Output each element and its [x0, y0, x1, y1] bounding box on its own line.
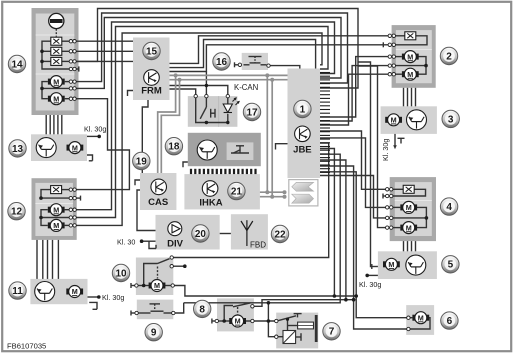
svg-text:3: 3 — [448, 114, 454, 125]
numbered circle 13 — [9, 140, 26, 157]
wire block9 left terminator — [130, 311, 132, 316]
block 2 inner panel — [396, 30, 432, 83]
svg-text:DIV: DIV — [167, 239, 184, 250]
numbered circle 1 — [294, 100, 311, 117]
numbered circle 2 — [440, 47, 457, 64]
wire JBE-b3 long rail to block9 — [184, 154, 341, 303]
svg-text:Kl. 30: Kl. 30 — [117, 238, 135, 247]
block 3 box — [381, 106, 437, 134]
wire block10 M rail — [174, 286, 356, 297]
numbered circle 16 — [213, 53, 230, 70]
connector pins block2 — [388, 34, 395, 76]
svg-text:IHKA: IHKA — [199, 198, 222, 209]
svg-text:21: 21 — [231, 187, 243, 198]
svg-text:11: 11 — [12, 286, 23, 297]
wire JBE-d1 to block4 M1 — [320, 138, 386, 208]
numbered circle 22 — [271, 225, 288, 242]
svg-text:Kl. 30g: Kl. 30g — [84, 125, 106, 134]
block7 relay coil — [278, 336, 283, 338]
block 9 box — [137, 300, 174, 320]
motor block11 — [66, 286, 83, 298]
wire FRM bottom to CAS top — [142, 100, 148, 173]
K-CAN drop to CAS 2 — [161, 80, 179, 173]
transistor unit block11 — [35, 282, 55, 302]
wire DIV left bracket — [149, 241, 156, 248]
CAS control-unit symbol — [151, 179, 167, 195]
block 14 outer housing — [32, 8, 79, 115]
block14 lamp-switch symbol — [49, 13, 64, 28]
svg-text:22: 22 — [274, 229, 286, 240]
wire Kl30 feed to DIV — [143, 240, 156, 242]
lamp X block12 — [51, 186, 62, 194]
IHKA IC comb — [191, 169, 256, 174]
block8 M stubs — [219, 320, 232, 322]
wire JBE-b4 join rail — [320, 160, 346, 300]
FBD antenna symbol — [241, 220, 253, 246]
motor M2 block2 — [402, 68, 419, 80]
K-CAN bus line 1 — [170, 74, 288, 76]
motor block6 — [412, 312, 429, 324]
wire block2 M2 elbow to JBE — [320, 74, 388, 125]
wire block13 bottom bracket — [87, 155, 93, 161]
svg-text:Kl. 30g: Kl. 30g — [102, 293, 124, 302]
bottom: block 10 box — [136, 258, 173, 296]
numbered circle 18 — [165, 138, 182, 155]
numbered circle 4 — [440, 198, 457, 215]
wire DIV to FBD — [220, 233, 231, 235]
wire block14 row2 to FRM — [76, 50, 133, 52]
motor block5 — [383, 258, 400, 270]
block4 internal X loop — [393, 188, 403, 190]
block10 M left stub — [137, 285, 151, 287]
wire block9 riser to rail — [175, 303, 184, 313]
wires block12 bottom to block11 — [36, 240, 38, 279]
wire FRM-A to block2 row1 — [170, 36, 389, 64]
svg-text:Kl. 30g: Kl. 30g — [359, 280, 381, 289]
wire block3 Kl30g arrow — [394, 134, 396, 146]
svg-text:8: 8 — [199, 304, 205, 315]
block 13 box — [31, 134, 87, 161]
svg-text:6: 6 — [447, 316, 453, 327]
transistor unit block5 — [406, 255, 426, 275]
K-CAN drop to IHKA/chevron 2 — [271, 80, 273, 197]
block10 dashed coupling — [157, 267, 159, 279]
wire rail drop to block7 pin2 — [268, 303, 274, 337]
wire block11 bottom bracket — [89, 302, 97, 309]
block 8 box — [217, 298, 254, 331]
wire JBE-d2 to block4 mid — [320, 176, 386, 218]
JBE block 1 — [288, 69, 321, 179]
block4 internal motor row stubs — [393, 206, 400, 208]
block 18 dark module box — [188, 133, 261, 166]
numbered circle 6 — [441, 312, 458, 329]
block10 M right stub — [163, 285, 171, 287]
wire JBE to block6 pin2 long vertical — [320, 166, 407, 329]
connector pins block6 — [407, 316, 410, 319]
wire CAS left bracket — [135, 180, 140, 185]
K-CAN bus line 2 — [170, 79, 288, 81]
connector pins block10 — [135, 284, 138, 287]
block6 internal loop — [410, 317, 412, 319]
svg-text:19: 19 — [136, 156, 148, 167]
block14 lamp dashed link — [55, 29, 57, 37]
lamp X2 block14 — [51, 47, 62, 55]
wire bus4 block12 M1 to top bus to JBE — [76, 22, 335, 210]
wire block2 M1 elbow to JBE — [320, 57, 388, 117]
svg-text:Kl. 30g: Kl. 30g — [381, 139, 390, 161]
wire bus3 block14 mid to top bus to JBE — [76, 18, 341, 89]
CAS block — [140, 173, 176, 210]
FBD block — [231, 214, 268, 249]
JBE connector comb — [320, 73, 330, 173]
IHKA block — [184, 174, 260, 209]
wire block4 row2 terminator — [382, 194, 384, 199]
motor M1 block12 — [48, 204, 65, 216]
wire CAS left to DIV — [137, 190, 156, 231]
svg-text:4: 4 — [446, 202, 452, 213]
block18 inner switch symbol — [231, 152, 249, 154]
wires block4 bottom to block5 — [403, 241, 405, 251]
block7 internals: switch blade — [278, 316, 296, 321]
motor M2 block14 — [48, 93, 65, 105]
svg-text:CAS: CAS — [148, 197, 168, 208]
DIV play symbol — [168, 222, 182, 236]
wire block2 mid elbow to JBE — [320, 66, 388, 121]
motor M1 block4 — [400, 201, 417, 213]
symbols layer — [35, 13, 429, 338]
wire block8 switch rail — [254, 300, 354, 307]
wire button16 left terminator — [234, 62, 236, 67]
wire bus5 block12 mid to top bus to JBE — [76, 27, 328, 218]
svg-text:12: 12 — [11, 207, 23, 218]
block16 contact — [244, 64, 250, 66]
wire block14 row1 to FRM — [76, 40, 133, 42]
wire JBE left bracket — [276, 144, 288, 150]
wire block18 left bracket — [183, 162, 188, 167]
block10 switch riser — [144, 264, 158, 286]
block4 internal motor common — [415, 207, 427, 227]
numbered circle 21 — [228, 182, 245, 199]
numbered circle 20 — [192, 225, 209, 242]
block8 switch riser — [224, 306, 233, 322]
block14 internal left rail X — [42, 41, 69, 69]
wire block10 switch contact2 stub — [173, 265, 183, 267]
wires layer — [37, 9, 430, 344]
block12 internal X row — [62, 189, 70, 191]
wire block8 left terminator — [211, 319, 213, 324]
svg-text:FB6107035: FB6107035 — [7, 342, 46, 351]
block 17 switch/LED box — [188, 96, 238, 127]
connector pins block17 — [194, 94, 197, 97]
block17 H symbol — [210, 109, 212, 118]
terminator tick block2 row2 — [382, 42, 384, 47]
svg-text:FBD: FBD — [250, 241, 266, 250]
K-CAN drop to CAS 1 — [158, 75, 176, 173]
terminator tick block14 row4 — [78, 66, 80, 71]
numbered circle 7 — [323, 323, 340, 340]
wire FRM to b17 pins 2-3 net — [170, 86, 228, 95]
lamp X block2 — [405, 32, 416, 40]
chevron arrow upper (left pointing) — [292, 182, 314, 191]
numbered circle 12 — [8, 203, 25, 220]
svg-text:2: 2 — [446, 51, 452, 62]
lamp X block4 — [403, 185, 414, 193]
numbered circle 5 — [442, 256, 459, 273]
svg-text:K-CAN: K-CAN — [234, 83, 258, 92]
motor M1 block14 — [48, 76, 65, 88]
svg-text:18: 18 — [168, 142, 180, 153]
wire JBE-b1 to block10 switch — [173, 143, 328, 258]
wire block14 row4 terminator — [76, 68, 79, 70]
wire FRM left bracket — [128, 91, 134, 97]
wire bus to block4 M2 long vertical — [358, 66, 386, 228]
block 11 box — [30, 279, 87, 304]
block 4 outer housing — [390, 177, 436, 241]
wire FRM to b17 pin1 — [170, 89, 196, 94]
block 12 outer housing — [32, 178, 77, 240]
wire bus1 block14 row3 to top bus to JBE — [76, 9, 358, 89]
lamp X3 block14 — [51, 57, 62, 65]
block7 bar — [315, 315, 318, 342]
block 4 inner panel — [395, 182, 432, 236]
chevron continuation box — [289, 180, 318, 206]
block17 internal rail — [196, 98, 228, 123]
block17 LED symbol — [223, 98, 239, 113]
numbered circle 19 — [133, 152, 150, 169]
FRM control-unit symbol — [144, 70, 160, 86]
wire block13 Kl30g stub — [87, 135, 98, 137]
transistor unit block13 — [36, 138, 56, 158]
block 2 outer housing — [392, 25, 436, 88]
block16 plunger — [249, 56, 262, 58]
wire b17 pin2 drop and riser — [205, 72, 207, 95]
motor M2 block4 — [400, 222, 417, 234]
wire FRM-B to JBE top — [170, 40, 316, 69]
block 5 box — [378, 251, 437, 279]
wire bus2 block14 M1 to top bus to JBE — [76, 13, 348, 83]
numbered circle 10 — [112, 264, 129, 281]
svg-text:16: 16 — [216, 57, 228, 68]
svg-text:JBE: JBE — [293, 145, 311, 156]
block17 switch stem — [205, 98, 207, 107]
motor M1 block2 — [402, 51, 419, 63]
wire block5 left terminator — [371, 264, 373, 269]
wire block14 row3b to FRM — [76, 60, 133, 62]
numbered circle 8 — [194, 300, 211, 317]
chevron arrow lower (right pointing) — [292, 194, 314, 203]
wire block10 left terminator — [130, 283, 132, 288]
wire block11 Kl30g stub — [88, 296, 98, 298]
svg-text:9: 9 — [151, 328, 157, 339]
block14 internal: X row stubs to pins — [62, 40, 69, 42]
block17 switch blade — [200, 107, 206, 119]
wire bus to block5 long vertical — [358, 62, 373, 267]
wire JBE-c1 to block4 row1 — [320, 131, 386, 189]
wire block8 out to block7 pin1 — [254, 320, 274, 322]
block3 T terminal — [398, 137, 405, 139]
connector pins block4 — [386, 188, 393, 230]
block 7 box — [276, 313, 318, 349]
svg-text:1: 1 — [300, 104, 306, 115]
numbered circle 15 — [143, 42, 160, 59]
block2 internal motor row stubs — [396, 56, 402, 58]
motor M2 block12 — [48, 219, 65, 231]
motor block8 — [229, 315, 246, 327]
numbered circle 3 — [442, 110, 459, 127]
connector pins block16 — [238, 63, 241, 66]
svg-text:5: 5 — [448, 260, 454, 271]
svg-text:20: 20 — [195, 229, 207, 240]
connector pins block7 — [275, 319, 278, 322]
block8 dashed coupling — [237, 307, 239, 315]
block 12 inner panel — [35, 183, 73, 236]
svg-text:17: 17 — [246, 107, 258, 118]
numbered circle 9 — [145, 324, 162, 341]
numbered circle 14 — [8, 55, 25, 72]
connector pins block14 — [69, 40, 76, 101]
wire block14 M2 down to block12 row1 — [76, 99, 129, 190]
block2 internal X loop — [396, 35, 405, 37]
K-CAN junction dots — [174, 73, 287, 198]
wire JBE to block6 pin1 long vertical — [320, 172, 407, 318]
block 16 button box — [242, 53, 268, 70]
block10 switch blade — [158, 259, 170, 264]
block 6 box — [406, 305, 434, 335]
wire bus6 block12 M2 to top bus to JBE — [76, 33, 322, 225]
numbered circle 11 — [9, 282, 26, 299]
motor block13 — [67, 142, 84, 154]
svg-text:10: 10 — [115, 268, 127, 279]
block 14 inner panel — [36, 14, 75, 111]
DIV block — [156, 215, 220, 250]
transistor unit block3 — [407, 110, 427, 130]
svg-text:15: 15 — [146, 46, 158, 57]
block12 internal M rows — [65, 209, 70, 211]
text layer — [8, 42, 460, 341]
wires block14 bottom to block13 — [45, 115, 47, 134]
wire FRM-C to block2 row2 — [170, 45, 389, 72]
wire block5 Kl30g feed — [369, 274, 378, 276]
connector pins block9 — [135, 311, 138, 314]
connector pins block8 — [215, 319, 218, 322]
wire JBE-b2 join rail — [320, 149, 334, 297]
wire block12 row2 terminator — [76, 197, 81, 199]
svg-text:14: 14 — [11, 59, 23, 70]
lamp X1 block14 — [51, 37, 62, 45]
JBE control-unit symbol — [295, 126, 311, 142]
block18 transistor unit — [197, 140, 217, 160]
wire button16 to JBE top — [270, 66, 300, 69]
block17 LED stem — [227, 98, 229, 104]
svg-text:13: 13 — [12, 144, 24, 155]
connector pins block12 — [69, 188, 76, 227]
svg-text:7: 7 — [329, 327, 335, 338]
block7 coil-to-switch link — [287, 319, 289, 331]
block8 switch blade — [233, 303, 250, 307]
IHKA control-unit symbol — [202, 181, 218, 197]
block9 switch symbol — [139, 312, 151, 314]
gray CAN bus layer — [158, 75, 288, 196]
K-CAN drop to IHKA/chevron 1 — [266, 75, 268, 192]
block2 internal motor common — [417, 57, 427, 75]
svg-text:FRM: FRM — [141, 86, 162, 97]
block7 resistor link — [288, 325, 298, 327]
block14 internal M rows — [65, 81, 70, 83]
motor block10 — [149, 280, 166, 292]
wires block2 bottom to block3 — [403, 88, 405, 107]
block 15 FRM box — [133, 38, 170, 101]
motor block3 — [385, 114, 402, 126]
numbered circle 17 — [243, 103, 260, 120]
